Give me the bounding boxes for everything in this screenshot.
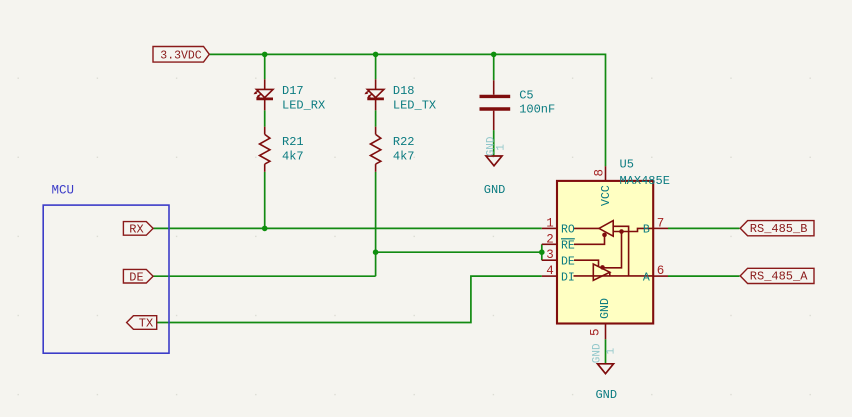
svg-text:VCC: VCC [600, 185, 613, 206]
svg-text:8: 8 [593, 169, 607, 177]
svg-text:4: 4 [546, 264, 554, 278]
U5 pin 8 VCC [605, 166, 607, 181]
svg-text:R21: R21 [282, 135, 304, 149]
svg-text:GND: GND [599, 298, 612, 319]
junction DE-branch [373, 249, 379, 255]
wire RX net MCU to U5 RO [153, 227, 542, 229]
svg-text:2: 2 [546, 232, 554, 246]
junction rail-D18 [373, 52, 379, 58]
wire D18 cathode to R22 [375, 110, 377, 126]
wire U5 A to RS_485_A [668, 275, 740, 277]
svg-text:C5: C5 [519, 88, 533, 102]
svg-text:MAX485E: MAX485E [620, 174, 670, 188]
wire DE net MCU to vertical [153, 275, 376, 277]
wire C5 branch from rail [493, 54, 495, 80]
svg-text:RS_485_A: RS_485_A [750, 270, 808, 284]
U5 internal receiver triangle [574, 221, 654, 276]
wire R22 to DE net [375, 172, 377, 276]
svg-text:DI: DI [561, 271, 575, 284]
hierarchical label DE [123, 269, 153, 284]
svg-text:B: B [643, 224, 650, 237]
U5 internal driver triangle [574, 260, 654, 280]
junction RE/DE strap [539, 249, 545, 255]
wire D17 branch from rail [264, 54, 266, 79]
junction rail-C5 [491, 52, 497, 58]
svg-text:5: 5 [588, 329, 602, 337]
svg-text:1: 1 [495, 144, 507, 151]
U5 pin 5 GND [605, 324, 607, 340]
svg-text:GND: GND [484, 183, 506, 197]
svg-text:DE: DE [129, 270, 143, 284]
svg-text:100nF: 100nF [519, 102, 555, 116]
svg-text:D17: D17 [282, 84, 304, 98]
wire C5 to GND [493, 130, 495, 155]
svg-text:MCU: MCU [52, 184, 75, 198]
hierarchical label TX [127, 316, 157, 331]
junction RX-R21 [262, 226, 268, 232]
resistor R21 [260, 127, 270, 172]
svg-text:GND: GND [592, 343, 604, 363]
wire DE net branch to RE/DE pins [376, 251, 542, 253]
wire D18 branch from rail [375, 54, 377, 79]
global label RS_485_B [740, 221, 814, 236]
op-amp U5 body MAX485E [557, 181, 653, 324]
junction rail-D17 [262, 52, 268, 58]
svg-text:4k7: 4k7 [393, 150, 415, 164]
svg-text:U5: U5 [620, 158, 634, 172]
wire RE-DE pin strap [541, 244, 543, 260]
capacitor C5 [480, 80, 511, 130]
wire U5 B to RS_485_B [668, 227, 740, 229]
svg-text:3.3VDC: 3.3VDC [160, 50, 202, 63]
svg-text:TX: TX [139, 317, 153, 331]
power label 3.3VDC [153, 47, 209, 63]
LED D18 [364, 79, 384, 110]
svg-text:D18: D18 [393, 84, 415, 98]
wire 3.3VDC power rail [209, 54, 605, 166]
svg-text:1: 1 [546, 216, 554, 230]
U5 pin 4 DI [542, 275, 557, 277]
U5 pin 1 RO [542, 227, 557, 229]
ground symbol below C5 [486, 156, 502, 166]
svg-text:A: A [643, 271, 650, 284]
svg-text:RE: RE [561, 240, 575, 253]
wire R21 to RX net [264, 172, 266, 229]
svg-text:LED_TX: LED_TX [393, 99, 436, 113]
svg-text:R22: R22 [393, 135, 415, 149]
svg-text:RX: RX [129, 223, 143, 237]
LED D17 [254, 79, 274, 110]
wire U5 GND pin to ground [605, 339, 607, 363]
svg-text:DE: DE [561, 255, 575, 268]
svg-text:GND: GND [595, 388, 617, 402]
U5 pin 7 B [653, 227, 668, 229]
global label RS_485_A [740, 268, 814, 283]
svg-text:4k7: 4k7 [282, 150, 304, 164]
ground symbol below U5 [598, 364, 614, 374]
resistor R22 [370, 127, 380, 172]
U5 pin 6 A [653, 275, 668, 277]
svg-text:LED_RX: LED_RX [282, 99, 325, 113]
wire TX net MCU to corner [157, 276, 542, 322]
U5 pin 3 DE [542, 259, 557, 261]
svg-text:1: 1 [606, 348, 618, 355]
svg-text:6: 6 [657, 264, 665, 278]
hierarchical label RX [123, 222, 153, 237]
svg-text:3: 3 [546, 248, 554, 262]
MCU sheet box [43, 205, 169, 353]
U5 pin 2 RE [542, 243, 557, 245]
svg-text:7: 7 [657, 216, 665, 230]
svg-text:RS_485_B: RS_485_B [750, 222, 808, 236]
wire D17 cathode to R21 [264, 110, 266, 126]
svg-text:RO: RO [561, 224, 575, 237]
